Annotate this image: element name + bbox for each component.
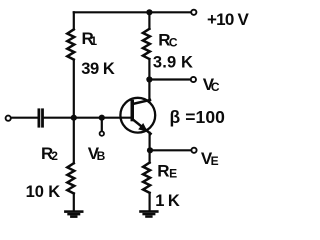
svg-text:1 K: 1 K [155,192,180,210]
junction top rail / RC [146,9,152,15]
junction base / R1 R2 [71,115,77,121]
wire left rail mid (R1 to base node) [73,60,75,118]
resistor RC [143,29,150,59]
svg-text:β =100: β =100 [170,107,226,127]
wire input to capacitor [11,117,37,119]
wire RC to VC node [148,59,150,80]
wire R2 to ground [73,193,75,210]
wire capacitor to base bar [44,117,132,119]
transistor Q1 base bar [131,100,135,122]
wire VE output [150,149,191,151]
ground left [64,210,83,218]
terminal VE [191,148,196,153]
wire left rail lower (base node to R2) [73,118,75,164]
svg-text:39 K: 39 K [81,60,115,78]
wire VB stub [101,118,103,131]
wire VC node to collector [148,80,150,102]
wire emitter node to RE [149,150,151,162]
ground right [139,210,158,218]
svg-text:+10 V: +10 V [207,10,249,29]
terminal VC [191,77,196,82]
junction VC node [146,76,152,82]
terminal VB [100,131,104,135]
resistor R2 [67,163,74,193]
wire top rail [74,11,191,13]
wire left rail upper (top to R1) [73,12,75,29]
transistor Q1 emitter diagonal [134,120,151,134]
resistor R1 [67,29,74,59]
terminal input [6,116,11,121]
capacitor C1 [38,110,41,126]
transistor Q1 collector diagonal [133,100,150,104]
svg-text:10 K: 10 K [26,183,61,201]
terminal +10V [191,10,196,15]
wire emitter vertical [149,133,151,151]
wire RE to ground [149,193,151,211]
svg-text:3.9 K: 3.9 K [153,54,193,72]
wire collector rail upper (top rail to RC) [148,12,150,29]
transistor Q1 emitter arrowhead [138,123,148,132]
wire VC output [149,78,190,80]
junction VB node [99,115,105,121]
junction emitter node [147,147,153,153]
transistor Q1 circle [120,98,155,133]
resistor RE [143,163,150,193]
